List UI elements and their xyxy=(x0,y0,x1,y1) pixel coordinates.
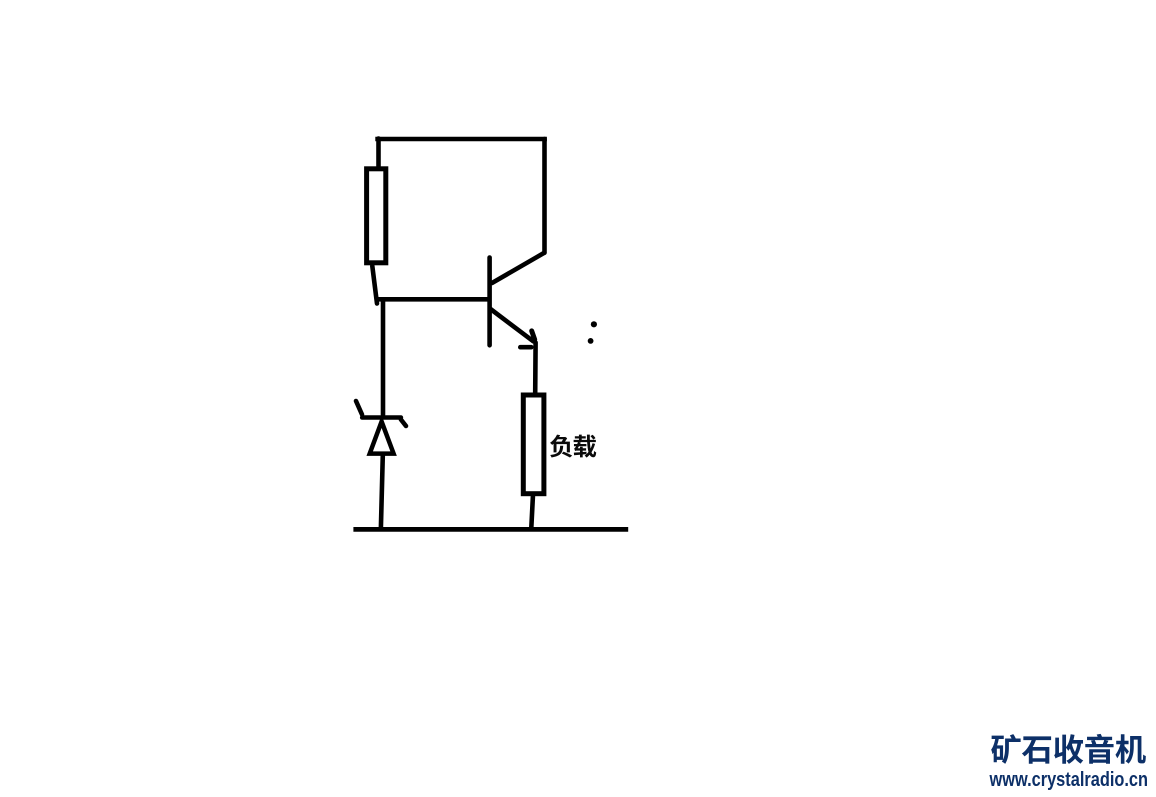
wire zener anode to ground rail xyxy=(381,455,383,528)
ground rail wire xyxy=(353,527,628,532)
wire node to zener cathode xyxy=(381,301,386,415)
transistor Q1 base bar xyxy=(487,258,492,346)
wire collector diagonal into transistor Q1 xyxy=(492,253,544,283)
label fu-zai (load) text xyxy=(550,435,596,458)
zener diode D1 right bend tick xyxy=(401,420,406,427)
wire top rail xyxy=(375,137,547,142)
zener diode D1 left bend tick xyxy=(356,401,362,415)
resistor R1 body xyxy=(367,169,386,263)
transistor Q1 emitter arrowhead left barb xyxy=(520,345,531,350)
wire resistor R1 top lead xyxy=(376,139,381,167)
colon annotation dots xyxy=(588,321,597,344)
svg-text:www.crystalradio.cn: www.crystalradio.cn xyxy=(989,769,1148,791)
wire emitter to load resistor xyxy=(533,343,538,394)
watermark logo kuangshi shouyinji xyxy=(991,734,1146,764)
wire base node to transistor xyxy=(378,297,488,302)
load resistor R2 body xyxy=(523,395,544,494)
transistor Q1 emitter diagonal xyxy=(491,309,534,341)
wire resistor R1 bottom lead xyxy=(372,266,377,304)
wire load resistor R2 to ground rail xyxy=(531,497,533,529)
zener diode D1 cathode bar xyxy=(362,415,401,420)
zener diode D1 anode triangle xyxy=(370,422,394,454)
wire collector drop from top rail xyxy=(542,139,547,253)
transistor Q1 emitter arrowhead upper barb xyxy=(532,331,535,340)
